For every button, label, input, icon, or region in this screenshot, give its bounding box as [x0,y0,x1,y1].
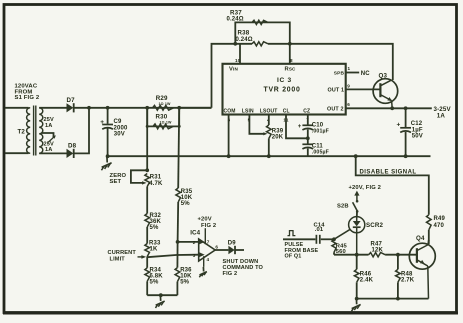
svg-text:R38: R38 [238,29,250,36]
capacitor C12 [404,106,408,110]
wire chain B from rail [178,108,179,188]
svg-text:+: + [100,119,104,126]
wire D8 cathode up to rail [74,108,89,154]
op IC3 TVR 2000 box [223,64,346,115]
potentiometer R31 wiper loop [131,170,147,183]
wire rail riser to upper rail [179,107,211,109]
svg-text:1A: 1A [45,147,52,153]
junction R48 top [396,253,400,257]
svg-text:R49: R49 [434,216,446,222]
svg-text:C12: C12 [411,121,423,127]
svg-text:0.24Ω: 0.24Ω [227,17,244,23]
svg-text:C10: C10 [312,122,324,128]
capacitor C14 [315,235,317,244]
wire R33 wiper to op-amp pin 3 [147,255,198,258]
svg-text:2: 2 [193,240,196,245]
resistor R38 in rail [235,43,252,45]
svg-text:R39: R39 [272,128,284,134]
wire primary bottom lead [5,152,29,154]
pulse symbol [288,231,296,236]
wire disable signal [356,156,429,215]
svg-text:4: 4 [207,257,210,262]
wire R30 parallel branch [147,108,179,127]
junction bottom ground node [159,293,163,297]
svg-text:Q3: Q3 [379,72,388,79]
wire C14 to gate node [321,238,334,240]
potentiometer R39 [268,115,270,126]
diode D8 [67,149,74,158]
svg-text:470: 470 [434,223,445,229]
svg-text:50V: 50V [412,134,423,140]
svg-text:FIG 2: FIG 2 [201,223,216,229]
svg-text:+20V, FIG 2: +20V, FIG 2 [349,185,382,191]
pin RSC stub [289,44,291,64]
potentiometer R33 [145,244,150,257]
junction rail-C9 [106,106,110,110]
svg-text:T2: T2 [18,129,26,136]
svg-text:CZ: CZ [303,109,310,115]
junction SCR cathode [355,253,359,257]
wire chain B plus node to R36 [176,242,178,268]
junction R37 left node [233,42,237,46]
pin LSIN stub to R39 wiper [249,115,263,134]
svg-text:5%: 5% [150,279,159,285]
wire pulse to C14 [283,238,315,240]
svg-text:NC: NC [361,71,370,77]
wire chain A from rail [146,108,148,171]
capacitor C11 [302,143,313,145]
wire plus node to op-amp pin 2 [178,241,199,243]
pin COM stub to bus [228,115,230,157]
svg-text:D9: D9 [228,240,236,246]
svg-text:DISABLE SIGNAL: DISABLE SIGNAL [360,170,417,176]
svg-text:OF Q1: OF Q1 [285,254,302,260]
resistor R32 [145,214,150,228]
wire op-amp output [215,249,228,251]
svg-text:D7: D7 [67,97,76,104]
wire bottom node [147,294,177,296]
wire +20V arrow [354,191,359,196]
wire R35 to plus node [177,202,180,242]
svg-text:1Ω 1W: 1Ω 1W [160,120,172,124]
wire R32 to R33 [146,227,148,244]
svg-text:3: 3 [193,253,196,258]
R33 wiper arrow [138,256,142,258]
wire secondary tap [42,133,54,138]
pin SPB / NC [346,72,360,74]
capacitor C10 [302,124,313,126]
junction R30 left [146,125,149,128]
tap arrow [48,136,55,142]
wire secondary top to D7 [39,107,66,109]
wire R31 to R32 [146,187,148,214]
junction bus-disable [354,154,358,158]
svg-text:6: 6 [215,244,218,249]
junction R30 right [178,125,181,128]
svg-text:SCR2: SCR2 [366,222,384,229]
svg-text:R48: R48 [401,271,413,277]
svg-text:R37: R37 [230,10,242,17]
junction R37 right node [288,42,292,46]
svg-text:1A: 1A [437,113,446,120]
svg-text:.005µF: .005µF [312,149,329,155]
resistor R34 [145,268,150,282]
svg-text:10: 10 [235,58,241,63]
junction bus-C9 [106,154,110,158]
capacitor C9 [107,108,109,124]
junction R39-bus [267,154,271,158]
svg-text:20K: 20K [272,135,284,141]
transformer T2 [27,108,31,154]
svg-text:0.24Ω: 0.24Ω [236,37,253,43]
svg-text:+: + [397,122,401,129]
resistor R36 [175,268,180,282]
wire bottom right bus [357,298,429,300]
junction CL node [306,136,310,140]
junction Q3 emitter-output [390,106,394,110]
svg-text:30V: 30V [114,132,125,138]
ground symbol crowbar [355,299,357,305]
junction R29 right node [177,106,181,110]
pin 4 ground stub [203,256,205,267]
svg-text:+20V: +20V [198,217,212,223]
svg-text:CURRENT: CURRENT [108,250,137,256]
ground symbol divider [159,295,161,301]
svg-text:5%: 5% [150,225,159,231]
wire secondary bottom to D8 [39,152,66,154]
svg-text:COM: COM [224,108,236,114]
resistor R48 [397,255,399,270]
junction R48-bus [396,297,400,301]
svg-text:TVR 2000: TVR 2000 [264,86,301,93]
pin CZ stub [307,115,309,125]
pin 7 supply stub [204,228,206,244]
svg-text:6: 6 [347,102,350,107]
wire R34 to bottom node [146,281,148,295]
svg-text:C9: C9 [114,119,122,125]
pin OUT 1 [346,88,381,90]
pin CL stub to C10/C11 node [286,115,308,139]
ground symbol main [106,156,108,162]
svg-text:12K: 12K [372,248,384,254]
junction plus input node [176,240,180,244]
resistor R46 [356,255,358,270]
svg-text:1K: 1K [150,246,158,252]
svg-text:R46: R46 [360,271,372,277]
wire switch to SCR2 anode [356,211,358,217]
wire R37 parallel loop [235,22,289,43]
svg-text:SET: SET [110,179,122,185]
transistor Q4 [409,243,435,269]
resistor R30 [153,124,173,129]
svg-text:Q4: Q4 [416,235,425,242]
junction R46-bus [355,297,359,301]
svg-text:FIG 2: FIG 2 [223,271,238,277]
wire common bus [108,155,431,157]
svg-text:LIMIT: LIMIT [110,256,126,262]
svg-text:IC 3: IC 3 [277,77,292,84]
resistor R47 [369,253,386,257]
transistor Q3 [373,79,398,104]
svg-text:.01: .01 [315,227,324,233]
wire gate-cathode line to Q4 base [334,254,369,256]
svg-text:1A: 1A [45,123,52,129]
svg-text:1Ω 1W: 1Ω 1W [159,102,171,106]
svg-text:7: 7 [207,239,210,244]
wire R33 to R34 [146,257,148,268]
junction R31 wiper top [145,168,149,172]
diode D7 [67,103,74,112]
svg-text:LSIN: LSIN [242,108,254,114]
svg-text:4.7K: 4.7K [149,181,163,187]
pin VIN stub [239,44,241,64]
resistor R37 [252,20,268,24]
svg-text:5%: 5% [180,279,189,285]
wire Q4 collector lead [427,240,430,245]
svg-text:S1 FIG 2: S1 FIG 2 [15,95,40,101]
junction C12-bus [404,154,408,158]
svg-text:8: 8 [290,58,293,63]
svg-text:2.4K: 2.4K [360,278,374,284]
svg-text:9: 9 [347,83,350,88]
wire Q4 emitter to bus [427,266,430,299]
resistor R29 in rail [153,105,174,110]
wire R47 to Q4 base [385,254,416,256]
resistor R35 [176,188,181,202]
op-amp IC4 [199,239,216,261]
wire upper rail to Q3 collector [290,44,393,80]
svg-text:2.7K: 2.7K [401,278,415,284]
SCR2 [349,217,365,233]
ground symbol op-amp [202,267,204,272]
wire D9 to shutdown [235,249,244,251]
svg-text:IC4: IC4 [190,230,200,237]
svg-text:.001µF: .001µF [312,129,329,135]
svg-text:5%: 5% [181,201,190,207]
resistor R31 [145,174,150,187]
switch S2B blade [353,202,358,211]
junction gate node [332,237,336,241]
svg-text:R31: R31 [150,175,162,181]
svg-text:SPB: SPB [334,71,345,77]
wire primary top lead [5,107,29,109]
svg-text:1µF: 1µF [412,127,423,133]
junction COM-bus [227,154,231,158]
SCR2 gate wire [334,229,350,239]
wire R49 to Q4 collector [428,230,430,244]
svg-text:1: 1 [348,66,351,71]
pin OUT 2 output line [346,107,432,109]
svg-text:+: + [298,124,302,130]
svg-text:S2B: S2B [337,204,349,210]
svg-text:OUT 1: OUT 1 [328,88,345,94]
junction R29 left node [145,106,149,110]
wire R36 to bottom node [176,282,178,296]
svg-text:D8: D8 [68,143,77,150]
svg-text:CL: CL [283,109,290,115]
junction rail-D8 [87,106,91,110]
diode D9 [228,246,234,254]
resistor R49 [427,215,432,230]
resistor R45 [332,239,336,252]
wire D7 cathode to rail [74,107,212,109]
svg-text:LSOUT: LSOUT [260,108,278,114]
svg-text:OUT 2: OUT 2 [327,107,344,113]
